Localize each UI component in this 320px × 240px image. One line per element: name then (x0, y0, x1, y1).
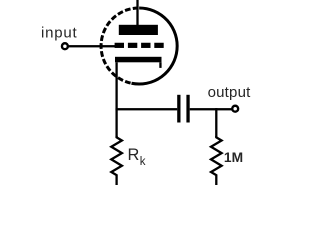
svg-text:1M: 1M (224, 150, 243, 165)
svg-text:R: R (128, 146, 140, 164)
input terminal (62, 43, 68, 49)
output terminal (232, 106, 238, 112)
cathode bar (115, 57, 162, 63)
wire: cathode lead down (115, 62, 117, 138)
grid (dashed bar) (115, 43, 164, 48)
anode plate bar (119, 25, 158, 35)
resistor 1M zigzag (211, 136, 222, 185)
capacitor C1 left plate (177, 95, 180, 123)
triode U1 envelope: solid right arc (132, 8, 178, 84)
wire: junction down to resistor 1M (215, 108, 217, 137)
svg-text:k: k (140, 156, 146, 168)
wire: junction to capacitor (115, 108, 177, 110)
resistor Rk zigzag (111, 136, 122, 185)
wire: input terminal to grid (69, 45, 116, 47)
svg-text:input: input (41, 25, 78, 42)
triode U1 envelope: dashed left arc (101, 8, 139, 83)
svg-text:output: output (208, 84, 252, 101)
cathode right hook (159, 62, 161, 68)
anode lead wire (136, 0, 138, 26)
capacitor C1 right plate (186, 95, 189, 123)
wire: capacitor to output terminal (190, 108, 233, 110)
